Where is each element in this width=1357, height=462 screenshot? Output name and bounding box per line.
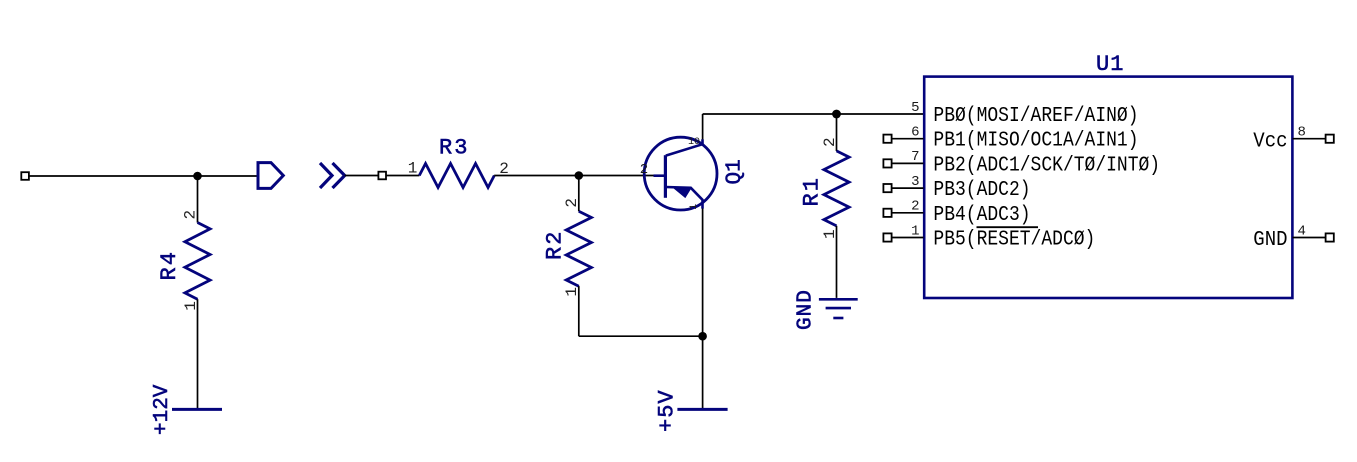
svg-text:PB3(ADC2): PB3(ADC2) — [933, 178, 1030, 202]
supply symbol +12V bar — [172, 408, 222, 411]
svg-text:2: 2 — [640, 162, 648, 178]
pin 3 wire — [887, 187, 923, 189]
svg-text:+12V: +12V — [151, 384, 174, 435]
pin 2 wire — [887, 212, 923, 214]
wire chevron to R3 — [345, 175, 420, 177]
overline over RESET — [977, 226, 1039, 228]
pin 4 wire — [1293, 237, 1326, 239]
pin 8 wire — [1293, 138, 1326, 140]
resistor R3 — [419, 164, 494, 188]
svg-text:2: 2 — [911, 199, 919, 215]
svg-text:1: 1 — [408, 159, 418, 177]
svg-text:2: 2 — [563, 198, 581, 208]
ground symbol bar 3 — [833, 317, 843, 320]
pin 6 terminal square — [883, 135, 891, 143]
junction node C — [698, 332, 707, 341]
pin 1 wire — [887, 237, 923, 239]
svg-text:Q1: Q1 — [724, 159, 747, 184]
wire R4 top lead — [197, 176, 199, 223]
svg-text:R3: R3 — [439, 136, 469, 161]
wire R2 top lead — [578, 176, 580, 212]
svg-text:1: 1 — [911, 223, 919, 239]
svg-text:GND: GND — [1253, 228, 1287, 252]
svg-text:R1: R1 — [800, 176, 825, 206]
svg-text:PB4(ADC3): PB4(ADC3) — [933, 203, 1030, 227]
pin 2 terminal square — [883, 209, 891, 217]
svg-text:PB5(RESET/ADCØ): PB5(RESET/ADCØ) — [933, 227, 1095, 251]
ground symbol bar 1 — [819, 298, 858, 301]
junction node B — [575, 171, 584, 180]
supply symbol +5V bar — [677, 408, 727, 411]
wire R1 top lead — [836, 114, 838, 151]
connector chevron 1 — [320, 163, 332, 188]
svg-text:PB2(ADC1/SCK/TØ/INTØ): PB2(ADC1/SCK/TØ/INTØ) — [933, 153, 1160, 177]
svg-text:+5V: +5V — [655, 389, 680, 432]
svg-text:R2: R2 — [543, 230, 568, 260]
pin 6 wire — [887, 138, 923, 140]
connector chevron 2 — [333, 163, 345, 188]
terminal square mid — [378, 172, 386, 180]
transistor Q1 circle — [644, 137, 717, 210]
connector pentagon — [258, 163, 283, 189]
svg-text:PB1(MISO/OC1A/AIN1): PB1(MISO/OC1A/AIN1) — [933, 128, 1138, 152]
svg-text:10: 10 — [688, 137, 700, 148]
transistor Q1 emitter arrow — [675, 189, 691, 198]
svg-text:4: 4 — [1298, 223, 1306, 239]
wire R2 bottom lead — [578, 286, 580, 336]
svg-text:R4: R4 — [157, 250, 182, 280]
ground symbol bar 2 — [826, 307, 851, 310]
svg-text:7: 7 — [911, 149, 919, 165]
wire Q1 collector up — [702, 114, 704, 139]
svg-text:GND: GND — [795, 289, 818, 330]
resistor R4 — [185, 223, 210, 300]
junction node A — [193, 172, 202, 181]
transistor Q1 collector line — [666, 139, 703, 155]
resistor R2 — [566, 211, 591, 286]
transistor Q1 base bar — [664, 155, 667, 198]
wire R2 to emitter net — [579, 335, 703, 337]
wire collector net to U1 pin5 — [703, 113, 924, 115]
terminal square left — [21, 172, 29, 180]
svg-text:6: 6 — [911, 125, 919, 141]
svg-text:Vcc: Vcc — [1253, 129, 1287, 153]
IC U1 box — [924, 77, 1292, 298]
wire Q1 emitter down to +5V — [702, 209, 704, 409]
resistor R1 — [824, 151, 849, 226]
transistor Q1 base pin — [654, 174, 666, 177]
pin 8 terminal square — [1326, 135, 1334, 143]
svg-text:1: 1 — [689, 204, 700, 210]
pin 7 terminal square — [883, 159, 891, 167]
svg-text:2: 2 — [182, 210, 200, 220]
transistor Q1 emitter line — [666, 187, 703, 209]
svg-text:5: 5 — [911, 100, 919, 116]
svg-text:8: 8 — [1298, 125, 1306, 141]
svg-text:3: 3 — [911, 174, 919, 190]
pin 3 terminal square — [883, 184, 891, 192]
pin 4 terminal square — [1326, 233, 1334, 241]
pin 7 wire — [887, 162, 923, 164]
wire R4 bottom lead — [197, 299, 199, 408]
svg-text:2: 2 — [821, 137, 839, 147]
wire R3 to Q1 base — [494, 175, 654, 177]
svg-text:U1: U1 — [1096, 52, 1124, 77]
wire R1 bottom lead — [836, 226, 838, 298]
svg-text:PBØ(MOSI/AREF/AINØ): PBØ(MOSI/AREF/AINØ) — [933, 104, 1138, 128]
pin 1 terminal square — [883, 233, 891, 241]
junction node D — [832, 110, 841, 119]
wire: left input net — [25, 175, 258, 177]
